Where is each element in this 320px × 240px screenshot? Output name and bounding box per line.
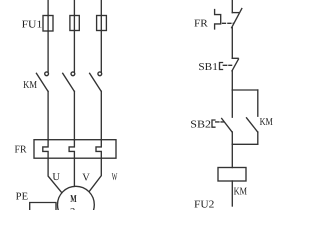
FR heater element 3 [96,140,101,159]
SB2 actuator dashed link [216,121,224,123]
svg-text:PE: PE [16,191,28,202]
wire L3 fuse to contact [100,31,102,73]
svg-text:FU2: FU2 [194,200,214,211]
thermal relay FR box [34,140,116,159]
control wire FR to SB1 [231,28,233,59]
fuse FU1 element 3 [97,16,107,31]
fuse FU1 element 1 [43,16,53,32]
svg-text:SB1: SB1 [198,62,218,73]
wire L1 phase top [47,0,49,16]
wire rail to coil [231,144,233,167]
FR actuator bracket [215,10,221,29]
wire SB2 to rail [231,132,233,144]
wire L3 phase top [100,0,102,16]
contactor KM main contact 2 [63,72,75,91]
svg-text:M: M [70,194,76,205]
contactor KM main contact 1 [36,72,48,91]
svg-text:KM: KM [234,187,248,198]
svg-text:V: V [82,172,90,183]
KM auxiliary NO contact [247,118,258,132]
wire L2 contact to FR [73,91,75,140]
KM aux wire to rail [257,132,259,144]
FR heater element 2 [69,140,74,159]
SB2 actuator bracket [212,120,215,127]
wire U phase to motor [48,158,62,193]
svg-text:SB2: SB2 [190,120,211,131]
wire L2 phase top [73,0,75,16]
control wire SB1 to junction [231,71,233,90]
contactor coil KM [218,168,246,182]
SB1 actuator dashed link [223,64,231,66]
wire L1 contact to FR [47,91,49,140]
FR actuator dashed link [223,22,234,24]
wire L3 contact to FR [100,91,102,140]
wire L1 fuse to contact [47,31,49,72]
fuse FU1 element 2 [70,16,79,31]
svg-text:KM: KM [23,80,37,91]
wire W phase to motor [89,158,101,192]
svg-text:3~: 3~ [70,207,81,210]
svg-text:FR: FR [15,144,27,155]
stop button SB1 NC contact [232,58,239,71]
start button SB2 NO contact [222,119,232,133]
branch rail top [232,89,257,91]
wire L2 fuse to contact [73,31,75,73]
FR NC contact (control) [232,9,242,28]
svg-text:W: W [112,172,118,183]
motor M circle [58,186,95,223]
PE terminal [30,203,56,211]
KM aux branch wire down [257,90,259,116]
SB1 actuator bracket [220,63,223,70]
FR heater element 1 [43,140,48,159]
wire coil to FU2 [231,181,233,206]
svg-text:FR: FR [194,19,208,30]
svg-text:KM: KM [260,117,274,128]
contactor KM main contact 3 [90,72,102,91]
svg-text:FU1: FU1 [22,20,43,31]
svg-text:U: U [52,172,60,183]
branch rail bottom [232,143,257,145]
control wire top [231,0,233,13]
wire junction to SB2 [231,90,233,117]
wire V phase to motor [73,158,75,187]
